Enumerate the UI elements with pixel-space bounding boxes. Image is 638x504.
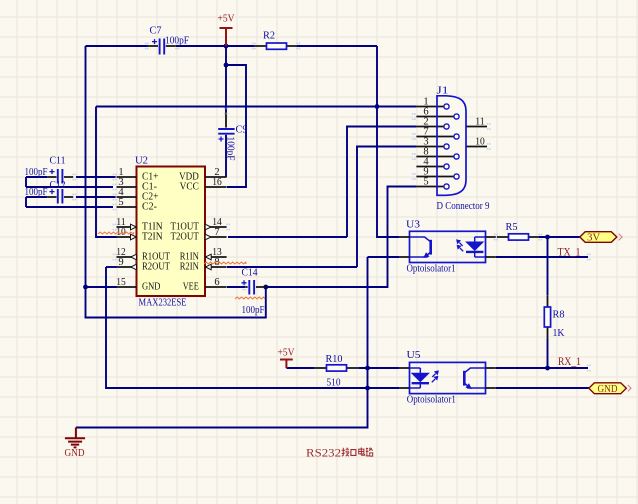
svg-text:R2OUT: R2OUT (142, 262, 170, 273)
J1 pin 5 stub (416, 186, 444, 188)
svg-text:100pF: 100pF (25, 187, 48, 198)
wire U3 bottom pin wire (368, 256, 400, 258)
title chinese char jie (342, 448, 350, 457)
capacitor C12 (47, 189, 73, 204)
svg-text:16: 16 (212, 177, 222, 188)
error squiggle under pin 10 (98, 232, 134, 234)
wire C11 right to pin1 (76, 176, 116, 178)
wire R2 right (297, 45, 377, 47)
port GND chevron (628, 385, 631, 391)
port 3V (580, 232, 617, 243)
U5 LED (410, 368, 430, 388)
svg-text:GND: GND (598, 384, 618, 395)
junction VCC branch (224, 63, 229, 68)
svg-text:11: 11 (475, 116, 485, 127)
svg-text:100pF: 100pF (165, 36, 189, 47)
svg-text:R5: R5 (506, 221, 518, 233)
U2 pin 8 R2IN stub (205, 266, 227, 268)
U2 input arrows pins 11,10 (131, 224, 137, 240)
wire C12 loop vertical (25, 197, 27, 207)
J1 pin 4 circle (444, 164, 449, 169)
J1 pin 9 stub (416, 176, 454, 178)
svg-text:U5: U5 (407, 349, 422, 361)
U2 pin 1 C1+ stub (117, 176, 137, 178)
svg-text:U3: U3 (406, 218, 421, 230)
J1 pin 2 stub (416, 126, 444, 128)
svg-text:C14: C14 (242, 268, 259, 279)
svg-text:100pF: 100pF (25, 167, 48, 178)
svg-text:R10: R10 (326, 353, 343, 365)
U2 pin 6 VEE stub (205, 286, 227, 288)
wire C12 right to pin4 (76, 196, 116, 198)
wire +5V junction down to C9 (225, 46, 227, 112)
wire down to U2 pin10 T2IN (96, 107, 117, 238)
svg-text:+5V: +5V (218, 13, 235, 25)
U2 pin 15 GND stub (117, 286, 137, 288)
J1 pin 2 circle (444, 124, 449, 129)
wire up to J1 pin3 (357, 147, 416, 268)
capacitor C11 (47, 169, 73, 184)
wire R10 to U5 top pin (358, 367, 399, 369)
U3 light arrows (456, 240, 463, 252)
svg-text:100pF: 100pF (242, 305, 265, 316)
U3 pins (400, 237, 496, 257)
svg-text:510: 510 (327, 377, 341, 389)
wire U2 pin7 T2OUT wire (228, 236, 347, 238)
J1 pin 7 circle (454, 134, 459, 139)
U2 pin 13 R1IN stub (205, 256, 227, 258)
U2 pin 12 R1OUT stub (117, 256, 137, 258)
U2 pin 10 T2IN stub (117, 236, 137, 238)
U2 pin 14 T1OUT stub (205, 226, 227, 228)
wire C11 loop vertical (25, 177, 27, 187)
port 3V chevron (619, 234, 623, 241)
connector J1 body outline (437, 96, 466, 196)
svg-text:MAX232ESE: MAX232ESE (139, 297, 187, 309)
U3 LED (466, 237, 486, 257)
U2 pin 5 C2- stub (117, 206, 137, 208)
wire TX_1 wire (496, 256, 588, 258)
title chinese char kou (351, 450, 356, 456)
svg-text:100pF: 100pF (225, 137, 236, 161)
wire C7 to R2 through +5V junction (176, 45, 255, 47)
svg-text:9: 9 (118, 257, 123, 268)
error squiggle under C14 (235, 297, 265, 299)
svg-text:U2: U2 (135, 155, 148, 167)
wire GND net down and left to ground (76, 257, 368, 428)
svg-text:RS232: RS232 (306, 446, 341, 460)
svg-text:5: 5 (423, 177, 428, 188)
svg-text:3V: 3V (587, 233, 600, 244)
svg-text:T2OUT: T2OUT (171, 232, 200, 243)
capacitor C9 (218, 112, 234, 142)
wire U2 pin9 R2OUT stub wire (106, 266, 117, 268)
svg-text:GND: GND (65, 447, 85, 459)
U2 pin 7 T2OUT stub (205, 236, 227, 238)
J1 pin 1 stub (416, 106, 444, 108)
wire C9 bottom to U2 pin2 VDD (225, 135, 227, 177)
wire up to J1 pin2 (347, 127, 416, 238)
svg-text:T2IN: T2IN (142, 232, 163, 243)
ground symbol (65, 428, 85, 448)
svg-text:R2: R2 (263, 30, 275, 42)
port GND (589, 383, 627, 394)
U5 pins (400, 368, 496, 388)
title chinese char lu (366, 448, 373, 457)
wire left rail down and along C14 loop (86, 46, 266, 318)
wire C7 left to left rail (86, 45, 148, 47)
svg-text:1K: 1K (553, 327, 565, 339)
wire C14 right up to J1 pin5 (266, 187, 417, 288)
svg-text:7: 7 (214, 227, 219, 238)
wire pin9 net down to 510 row (106, 267, 400, 388)
junction GND pin15 (83, 285, 88, 290)
wire C11 loop left top (26, 176, 47, 178)
J1 pin 3 circle (444, 144, 449, 149)
junction C14 right (263, 285, 268, 290)
U2 output arrows pins 14,7 (205, 224, 211, 240)
junction J1 pin1 net (375, 104, 380, 109)
U5 light arrows (432, 371, 439, 383)
junction +5V rail (224, 44, 229, 49)
J1 pin 11 stub (466, 126, 487, 128)
resistor R5 (497, 234, 539, 240)
svg-text:+5V: +5V (278, 347, 295, 359)
svg-text:TX_1: TX_1 (558, 246, 581, 258)
svg-text:C9: C9 (236, 125, 248, 136)
power +5V bottom (280, 360, 293, 369)
wire pin5 wire (26, 206, 113, 208)
svg-text:R8: R8 (553, 309, 565, 321)
wire R5 to 3V port (539, 236, 580, 238)
J1 pin 10 stub (466, 146, 487, 148)
optoisolator U5 body (410, 362, 486, 393)
junction R8-RX_1 (545, 366, 550, 371)
svg-text:RX_1: RX_1 (558, 356, 581, 368)
junction R5-R8-3V (545, 235, 550, 240)
J1 pin 4 stub (416, 166, 444, 168)
U2 input arrows pins 13,8 (205, 254, 211, 270)
svg-text:C12: C12 (50, 180, 66, 191)
wire U2 pin6 VEE to C14 (227, 286, 245, 288)
svg-text:R2IN: R2IN (180, 262, 199, 273)
optoisolator U3 body (410, 231, 486, 262)
svg-text:VCC: VCC (180, 182, 199, 193)
svg-text:C7: C7 (150, 26, 162, 37)
wire down to R8 (547, 237, 549, 295)
capacitor C7 (148, 39, 176, 55)
power +5V top (220, 28, 233, 46)
resistor R10 (315, 365, 359, 371)
wire +5V to R10 (286, 367, 314, 369)
svg-text:D Connector 9: D Connector 9 (437, 200, 490, 212)
wire U2 pin15 GND wire (86, 286, 117, 288)
svg-text:VEE: VEE (183, 282, 199, 293)
resistor R2 (255, 43, 297, 49)
J1 pin 9 circle (454, 174, 459, 179)
U5 phototransistor (464, 368, 485, 388)
U2 pin 3 C1- stub (117, 186, 137, 188)
wire branch to U2 pin16 VCC (226, 65, 246, 187)
title chinese char dian (359, 448, 365, 456)
svg-text:6: 6 (214, 277, 219, 288)
U2 pin 2 VDD stub (205, 176, 227, 178)
error squiggle under pin 8 (204, 262, 246, 264)
U3 phototransistor (410, 237, 431, 257)
J1 pin 3 stub (416, 146, 444, 148)
connector J1 body fill (437, 96, 466, 196)
svg-text:15: 15 (116, 277, 126, 288)
wire C12 loop left top (26, 196, 47, 198)
wire R8 to RX_1 junction (547, 339, 549, 368)
U2 pin 16 VCC stub (205, 186, 227, 188)
J1 pin 7 stub (416, 136, 454, 138)
U2 pin 11 T1IN stub (117, 226, 137, 228)
capacitor C14 (242, 280, 266, 295)
dangling markers (72, 43, 590, 372)
svg-text:GND: GND (142, 282, 161, 293)
svg-text:C11: C11 (50, 156, 66, 167)
J1 pin 6 stub (416, 116, 454, 118)
wire pin3 wire (26, 186, 113, 188)
junction 510 row (365, 386, 370, 391)
wire RX_1 wire (496, 367, 588, 369)
svg-text:C2-: C2- (142, 202, 157, 213)
svg-text:Optoisolator1: Optoisolator1 (407, 263, 456, 275)
wire U2 pin8 R2IN wire (227, 266, 357, 268)
wire R2 net down to U3 top pin (377, 46, 400, 237)
J1 pin 6 circle (454, 114, 459, 119)
svg-text:Optoisolator1: Optoisolator1 (407, 394, 456, 406)
wire U5 to GND port (496, 387, 589, 389)
U2 output arrows pins 12,9 (131, 254, 137, 270)
J1 pin 5 circle (444, 184, 449, 189)
J1 pin 8 circle (454, 154, 459, 159)
svg-text:10: 10 (475, 136, 485, 147)
svg-text:J1: J1 (437, 85, 449, 97)
junction R10 row (365, 366, 370, 371)
J1 pin 8 stub (416, 156, 454, 158)
IC U2 MAX232ESE body (137, 167, 206, 297)
wire long top net to J1 pin1 (96, 106, 416, 108)
resistor R8 (544, 295, 550, 339)
svg-text:5: 5 (118, 197, 123, 208)
U2 pin 4 C2+ stub (117, 196, 137, 198)
J1 pin 1 circle (444, 104, 449, 109)
U2 pin 9 R2OUT stub (117, 266, 137, 268)
